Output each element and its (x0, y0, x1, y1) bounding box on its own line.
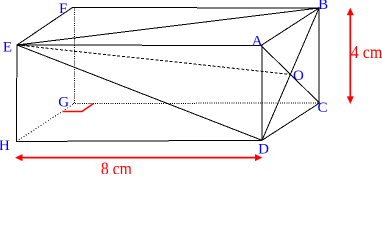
svg-text:D: D (258, 142, 269, 158)
svg-text:B: B (318, 0, 328, 13)
svg-text:O: O (293, 68, 304, 84)
svg-text:F: F (59, 1, 67, 17)
svg-text:C: C (318, 100, 328, 116)
svg-text:4 cm: 4 cm (351, 42, 382, 62)
svg-text:8 cm: 8 cm (101, 158, 132, 174)
svg-text:H: H (0, 138, 10, 154)
svg-text:E: E (3, 40, 12, 56)
svg-text:G: G (58, 95, 69, 111)
svg-text:A: A (252, 34, 263, 50)
